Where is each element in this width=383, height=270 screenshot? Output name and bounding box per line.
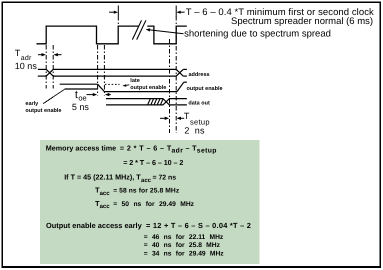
svg-text:Output enable access early: Output enable access early: [46, 221, 143, 230]
late OE falling diagonal: [98, 84, 105, 91]
svg-text:output enable: output enable: [187, 86, 223, 92]
ref line V2 address valid x=53: [52, 45, 54, 89]
address bus right stub: [183, 68, 187, 70]
address bus: [38, 69, 187, 76]
late OE label leader arrow: [122, 84, 129, 86]
svg-text:– T: – T: [186, 143, 198, 152]
ref line V118 second clock rising edge top: [117, 16, 119, 26]
ref line V5 third clock rising edge x=176.2: [175, 16, 177, 133]
svg-text:output enable: output enable: [25, 108, 61, 114]
ref line V3 clock falling edge x=97.6: [97, 45, 99, 96]
svg-text:oe: oe: [78, 93, 86, 102]
svg-text:= 58 ns for 25.8 MHz: = 58 ns for 25.8 MHz: [113, 188, 180, 195]
svg-text:2 ns: 2 ns: [184, 126, 205, 136]
OE rising edge right: [177, 82, 184, 91]
top dimension arrow left-pointing at V5: [178, 11, 185, 13]
clock waveform segment 2 after break: [147, 26, 187, 44]
svg-text:shortening due to spectrum spr: shortening due to spectrum spread: [184, 29, 331, 40]
dash-dot reference verticals: [46, 16, 176, 133]
data bus bottom line: [106, 102, 187, 105]
svg-text:output enable: output enable: [130, 85, 166, 91]
svg-text:Memory access time: Memory access time: [46, 143, 116, 152]
address bus X transition 1: [46, 69, 53, 76]
svg-text:= 72 ns: = 72 ns: [153, 175, 177, 182]
svg-text:late: late: [130, 78, 139, 84]
early output enable callout line: [43, 89, 64, 103]
svg-text:= 2 * T – 6 – T: = 2 * T – 6 – T: [120, 143, 172, 152]
Tadr dimension right arrow: [55, 54, 62, 56]
ref line V6 data valid x=169.5: [169, 39, 171, 133]
top dimension arrow right-pointing at V118: [109, 11, 185, 14]
address bus left segment top: [38, 68, 46, 70]
solid top of V118: [117, 6, 119, 17]
data bus top line: [106, 99, 187, 102]
svg-text:= 12 + T – 6 – S – 0.04 *T – 2: = 12 + T – 6 – S – 0.04 *T – 2: [146, 221, 251, 230]
clock break squiggle slash 2: [137, 20, 146, 39]
early output enable low line: [65, 88, 98, 90]
Tadr dimension left arrow: [38, 53, 62, 56]
ref line V4 late OE fall x=104.4: [103, 45, 105, 96]
solid top of V5: [175, 6, 177, 17]
Tsetup dimension right arrow: [178, 117, 184, 119]
clock waveform segment 1: [37, 26, 139, 44]
output enable high line: [60, 82, 187, 91]
svg-text:If T = 45 (22.11 MHz), T: If T = 45 (22.11 MHz), T: [64, 173, 141, 182]
svg-text:adr: adr: [172, 148, 184, 155]
svg-text:= 34 ns for 29.49 MHz: = 34 ns for 29.49 MHz: [144, 250, 224, 257]
address bus middle segment: [53, 68, 176, 70]
svg-text:= 46 ns for 22.11 MHz: = 46 ns for 22.11 MHz: [144, 234, 224, 241]
svg-text:setup: setup: [197, 148, 217, 155]
green box formula text: [46, 143, 251, 257]
svg-text:10 ns: 10 ns: [15, 61, 38, 71]
svg-text:5 ns: 5 ns: [72, 102, 90, 112]
svg-text:= 2 * T – 6 – 10 – 2: = 2 * T – 6 – 10 – 2: [123, 158, 183, 167]
svg-text:acc: acc: [100, 204, 111, 210]
OE low line: [104, 91, 177, 93]
Tsetup dimension left arrow: [160, 117, 184, 120]
toe dimension right arrow: [107, 94, 111, 96]
address bus X transition 2: [176, 69, 183, 76]
svg-text:T: T: [184, 111, 190, 121]
svg-text:early: early: [25, 101, 39, 107]
toe dimension left arrow: [87, 93, 111, 96]
svg-text:= 50 ns for 29.49 MHz: = 50 ns for 29.49 MHz: [113, 201, 194, 208]
svg-text:acc: acc: [100, 191, 111, 197]
svg-text:acc: acc: [141, 178, 152, 184]
OE right stub: [184, 81, 187, 83]
address bus left segment bottom: [38, 75, 46, 77]
late OE dotted high line: [105, 83, 120, 85]
ref line V1 first clock rising edge x=46: [45, 45, 47, 89]
svg-text:= 40 ns for 25.8 MHz: = 40 ns for 25.8 MHz: [144, 242, 221, 249]
svg-text:address: address: [189, 72, 210, 78]
data out bus: [106, 99, 187, 105]
green formula box: [40, 140, 260, 264]
data bus hatch slashes: [148, 99, 164, 105]
svg-text:data out: data out: [188, 101, 210, 107]
shortening leader arrow: [146, 28, 184, 33]
svg-text:Spectrum spreader normal (6 ms: Spectrum spreader normal (6 ms): [231, 16, 373, 27]
clock break squiggle slash 1: [132, 20, 141, 39]
